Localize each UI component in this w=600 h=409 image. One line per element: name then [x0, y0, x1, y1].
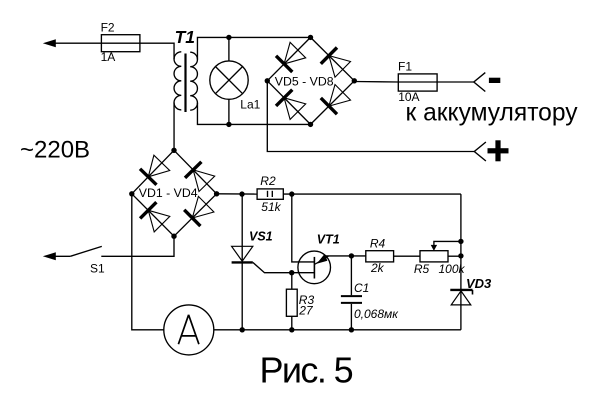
- wire R2 right to corner: [283, 193, 461, 195]
- svg-text:F1: F1: [398, 60, 412, 74]
- minus terminal arrowhead: [474, 73, 486, 92]
- potentiometer R5: [420, 241, 461, 262]
- wire lamp top: [228, 37, 230, 61]
- plus terminal arrowhead: [474, 142, 486, 161]
- wire VT1 emitter to R4: [326, 255, 366, 257]
- wire bridge1 left node down to ammeter: [132, 194, 164, 330]
- wire bridge2 left node to plus terminal: [267, 81, 474, 152]
- resistor R2: [257, 189, 283, 199]
- wire R2 to VT1 base: [292, 194, 315, 262]
- arrow to mains (bottom): [43, 252, 56, 260]
- plus sign: [488, 140, 509, 161]
- svg-text:VS1: VS1: [249, 229, 273, 243]
- svg-text:R2: R2: [260, 174, 276, 188]
- wire bridge1 right node to R2: [217, 193, 258, 195]
- wire right rail down: [460, 194, 462, 290]
- minus sign: [489, 78, 500, 83]
- fuse F2: [101, 35, 139, 52]
- wire transformer secondary bottom: [197, 103, 310, 125]
- wire switch to arrow: [54, 255, 70, 257]
- wire transformer secondary top: [197, 37, 310, 59]
- svg-text:0,068мк: 0,068мк: [354, 307, 399, 321]
- resistor R4: [366, 251, 394, 262]
- diode VD2 (top-right): [185, 162, 215, 192]
- diode VD7 (bottom-left): [276, 90, 306, 120]
- svg-text:2k: 2k: [370, 261, 385, 275]
- bridge VD5-VD8 frame: [267, 37, 354, 124]
- svg-text:T1: T1: [175, 27, 195, 47]
- svg-text:~220В: ~220В: [20, 136, 90, 163]
- svg-text:1A: 1A: [101, 50, 116, 64]
- capacitor C1: [341, 296, 362, 303]
- wire R3 bottom: [291, 316, 293, 330]
- wire R5 right: [448, 255, 461, 257]
- wire fuse F1 to minus terminal: [437, 81, 474, 83]
- transformer T1: [174, 52, 197, 112]
- svg-text:R4: R4: [370, 236, 386, 250]
- svg-text:S1: S1: [90, 261, 105, 275]
- svg-text:VD5 - VD8: VD5 - VD8: [275, 75, 334, 89]
- wire C1 top: [350, 256, 352, 295]
- diode VD4 (bottom-right): [184, 196, 214, 226]
- zener diode VD3: [450, 290, 472, 305]
- svg-text:VD3: VD3: [466, 276, 492, 291]
- svg-text:100k: 100k: [439, 262, 466, 276]
- bridge VD1-VD4 frame: [132, 150, 217, 236]
- svg-text:51k: 51k: [261, 200, 281, 214]
- wire lamp bottom: [228, 99, 230, 124]
- lamp La1: [210, 61, 248, 99]
- fuse F1: [398, 74, 437, 91]
- wire transformer primary bottom: [173, 103, 175, 151]
- arrow to mains (top): [43, 39, 56, 47]
- wire VS1 anode: [241, 194, 243, 262]
- svg-text:La1: La1: [240, 97, 260, 111]
- svg-text:C1: C1: [354, 281, 369, 295]
- node dots: [129, 35, 463, 333]
- diode VD3b (bottom-left): [140, 202, 170, 232]
- svg-text:Рис. 5: Рис. 5: [260, 350, 353, 391]
- wire R3 top: [291, 273, 293, 290]
- diode VD8 (bottom-right): [321, 85, 351, 115]
- switch S1 blade: [70, 246, 102, 256]
- svg-text:R5: R5: [414, 262, 430, 276]
- svg-text:VT1: VT1: [317, 232, 340, 246]
- wire VS1 gate: [253, 262, 292, 272]
- svg-text:к аккумулятору: к аккумулятору: [406, 100, 579, 127]
- diode VD5 (top-left): [276, 42, 306, 72]
- wire R4 to R5: [394, 255, 420, 257]
- wire fuse F2 to transformer: [140, 43, 174, 59]
- resistor R3: [286, 289, 297, 316]
- ammeter A: [164, 305, 214, 355]
- wire VD3 bottom to rail: [460, 291, 462, 330]
- wire C1 bottom: [350, 304, 352, 330]
- svg-text:27: 27: [298, 303, 314, 317]
- wire bridge2 right node to fuse F1: [354, 81, 398, 84]
- svg-text:VD1 - VD4: VD1 - VD4: [139, 186, 198, 200]
- diode VD6 (top-right): [321, 48, 351, 78]
- diode VD1 (top-left): [140, 155, 170, 185]
- wire VS1 cathode: [241, 262, 243, 329]
- wire bridge1 bottom node to switch: [101, 236, 174, 256]
- transistor VT1: [292, 251, 331, 284]
- thyristor VS1: [232, 246, 253, 262]
- wire bottom rail: [214, 329, 461, 331]
- svg-text:F2: F2: [101, 21, 115, 35]
- wire arrow to fuse F2: [54, 42, 101, 44]
